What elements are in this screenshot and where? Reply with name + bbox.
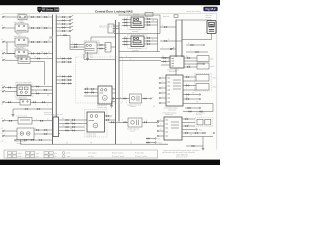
wire ignition load sw left	[5, 53, 16, 55]
wire M3 in 1	[70, 44, 84, 46]
wire M1 in 1	[84, 88, 96, 90]
svg-text:GB: GB	[188, 65, 190, 67]
series badge	[42, 7, 59, 11]
connector pair U4 out 3	[185, 125, 186, 126]
wire bottom feed left	[21, 143, 53, 145]
connector pair U4 out 5	[185, 132, 186, 133]
svg-text:GB: GB	[153, 106, 155, 108]
svg-text:N: N	[41, 15, 42, 17]
svg-text:a12: a12	[1, 85, 4, 87]
door switch S2	[20, 100, 31, 106]
connector pair passenger door actuator group in 3	[124, 44, 125, 45]
wire M3 out 1	[97, 44, 105, 46]
connector pair X1 b 4	[72, 130, 73, 131]
motor box B5	[196, 84, 209, 91]
connector pair driver door actuator group in 2	[124, 22, 125, 23]
svg-text:B: B	[160, 124, 161, 126]
wire M3 in 2	[70, 46, 84, 48]
wire top rail	[119, 14, 160, 16]
connector pair X1 a 2	[65, 123, 66, 124]
connector pair a interior lamp feed	[31, 16, 32, 17]
connector pair y111 a	[188, 111, 189, 112]
legend box	[4, 150, 158, 158]
wire A5 right 2	[34, 133, 53, 135]
connector pair sill a 3	[62, 83, 63, 84]
actuator motor driver door actuator group	[131, 17, 144, 28]
svg-text:GB: GB	[124, 37, 126, 39]
svg-text:U: U	[121, 26, 122, 28]
connector block C300	[105, 43, 111, 53]
wire sub row y52	[186, 51, 208, 53]
connector pair M1 in 1b	[91, 88, 92, 89]
svg-text:a12: a12	[1, 141, 4, 143]
wire U4 out 6	[182, 136, 213, 138]
terminal ignition load sw	[2, 53, 3, 54]
svg-text:B: B	[29, 26, 30, 28]
wire S3 left	[5, 120, 19, 122]
switch contact pillar 5	[69, 30, 71, 32]
terminal U3 in 1	[159, 77, 160, 78]
connector pair A5 r2	[44, 133, 45, 134]
svg-text:lamp: lamp	[67, 153, 71, 155]
connector pair sill a 2	[62, 79, 63, 80]
svg-text:central door locking: central door locking	[186, 10, 201, 13]
connector pair A5 r3c	[39, 139, 40, 140]
connector pair U3 out 5	[186, 94, 187, 95]
svg-text:P: P	[47, 57, 48, 59]
junction key 2	[56, 62, 57, 63]
terminal S2	[2, 102, 3, 103]
top black bar	[0, 0, 220, 5]
wire U3 out 1	[183, 76, 196, 78]
svg-text:link: link	[54, 156, 57, 158]
connector pair feed mid	[63, 35, 64, 36]
connector pair U4 out 1	[185, 118, 186, 119]
wire above M3	[90, 37, 92, 41]
connector pair U3 out 3	[186, 85, 187, 86]
junction pillar 3	[56, 24, 57, 25]
connector pair S2 a	[33, 102, 34, 103]
connector pair y122.3 b	[123, 122, 124, 123]
wire driver door actuator group in 3	[122, 25, 131, 27]
actuator motor M3 front left door	[85, 42, 97, 53]
wire lock relay left	[5, 27, 16, 29]
actuator M1 front door	[98, 86, 112, 104]
wire row y122.3 right	[109, 121, 129, 123]
switch contact pillar 3	[69, 23, 71, 25]
wire right row y49	[160, 48, 176, 50]
terminal U3 out 5	[199, 94, 200, 95]
wire right row y41	[160, 40, 182, 42]
wire G2 stub	[111, 102, 113, 104]
svg-text:N: N	[35, 105, 36, 107]
connector pair M3 out 2	[99, 48, 100, 49]
svg-text:see key: see key	[196, 114, 202, 116]
svg-text:G: G	[146, 42, 147, 44]
wire courtesy right 1	[30, 58, 53, 60]
connector pair K2 r2	[44, 89, 45, 90]
switch box SW2	[205, 119, 211, 125]
wire U2 feed left b	[119, 60, 161, 62]
wire M2 out 1	[105, 115, 113, 117]
svg-text:RR Series 1995: RR Series 1995	[42, 9, 60, 12]
wire pillar switch row 2	[56, 20, 69, 22]
svg-text:Y: Y	[47, 86, 48, 88]
junction U2 feed	[119, 57, 120, 58]
connector pair K2 r1	[36, 86, 37, 87]
wire CB1 out 3	[114, 30, 116, 32]
connector pair sub y45	[190, 44, 191, 45]
actuator M2 rear door	[87, 112, 105, 132]
wire bottom drop	[20, 140, 22, 144]
connector pair K2 r3	[36, 93, 37, 94]
connector pair pillar 2	[62, 20, 63, 21]
terminal U3 in 6	[159, 102, 160, 103]
svg-text:conn: conn	[36, 153, 39, 155]
wire right row y27	[160, 26, 176, 28]
svg-text:B: B	[146, 120, 147, 122]
svg-text:N: N	[162, 81, 163, 83]
svg-text:a12: a12	[1, 39, 4, 41]
svg-text:G: G	[122, 120, 123, 122]
assembly boundary rear door	[85, 110, 108, 138]
wire A5 left 1	[5, 130, 18, 132]
connector pair c ignition load sw	[44, 53, 45, 54]
svg-text:GB: GB	[34, 57, 36, 59]
wire U4 out 4	[182, 129, 195, 131]
wire key switch row 1	[56, 58, 72, 60]
svg-text:Central Door Locking NAS: Central Door Locking NAS	[95, 10, 133, 14]
svg-text:a12: a12	[1, 90, 4, 92]
wire key switch row 2	[56, 61, 72, 63]
svg-text:Y: Y	[124, 21, 125, 23]
wire lock top	[176, 19, 212, 21]
svg-text:NB: NB	[98, 43, 100, 45]
svg-text:splice: splice	[18, 153, 22, 155]
small box top center	[145, 13, 153, 17]
wire X1 out 1	[60, 119, 87, 121]
connector pair X1 a 1	[65, 119, 66, 120]
component courtesy switch box	[18, 57, 30, 64]
connector pair passenger door actuator group in 2	[124, 41, 125, 42]
svg-text:lock: lock	[158, 138, 161, 140]
svg-text:a12: a12	[1, 57, 4, 59]
svg-text:U: U	[162, 47, 163, 49]
switch contact pillar 4	[69, 27, 71, 29]
wire A5 right 3	[16, 139, 53, 141]
connector pair A5 r1	[36, 129, 37, 130]
svg-text:fuse: fuse	[54, 153, 57, 155]
connector pair b lock relay	[37, 27, 38, 28]
terminal U4 in 2	[157, 125, 158, 126]
svg-text:Y: Y	[35, 136, 36, 138]
wire left of U4 bottom	[160, 143, 168, 145]
wire unlock relay left	[5, 41, 16, 43]
wire driver door actuator group out 3	[144, 24, 158, 26]
wire pillar switch row 5	[56, 30, 69, 32]
terminal U3 in 5	[159, 97, 160, 98]
wire U3 out 5	[183, 94, 199, 96]
connector pair U2 in 2	[163, 61, 164, 62]
svg-text:fuel filler flap lock: fuel filler flap lock	[127, 129, 139, 131]
connector pair y109	[25, 108, 26, 109]
connector pair b interior lamp feed	[37, 16, 38, 17]
svg-text:GP: GP	[48, 40, 50, 42]
bottom black bar	[0, 160, 220, 165]
terminal courtesy	[2, 60, 3, 61]
svg-text:R: R	[124, 18, 125, 20]
svg-text:NB: NB	[186, 97, 188, 99]
connector pair U2 in 1	[163, 57, 164, 58]
ECU U3 central door locking unit	[166, 75, 183, 106]
connector pair pillar 4	[62, 27, 63, 28]
component box lock relay	[15, 24, 28, 32]
connector pair key b 2	[68, 61, 69, 62]
junction pillar 2	[56, 20, 57, 21]
wire U2 feed left a	[119, 57, 170, 59]
svg-text:a12: a12	[1, 128, 4, 130]
terminal K2 left 2	[2, 91, 3, 92]
svg-text:GP: GP	[190, 135, 192, 137]
svg-text:GB: GB	[48, 52, 50, 54]
svg-text:R: R	[29, 40, 30, 42]
junction pillar 1	[56, 17, 57, 18]
terminal S3	[2, 120, 3, 121]
connector pair U2 out 1	[187, 57, 188, 58]
switch contact pillar 2	[69, 20, 71, 22]
assembly boundary front left door	[84, 41, 99, 55]
terminal U2 out 3	[203, 63, 204, 64]
svg-text:M: M	[104, 98, 106, 100]
svg-text:plug: plug	[36, 156, 39, 158]
wire pillar switch row 4	[56, 27, 69, 29]
svg-text:Fig 15.2: Fig 15.2	[205, 7, 216, 11]
svg-text:see key: see key	[88, 156, 94, 158]
svg-text:N: N	[152, 39, 153, 41]
component box interior lamp feed	[18, 15, 27, 20]
terminal U3 in 2	[159, 82, 160, 83]
wire passenger door actuator group out 1	[144, 37, 158, 39]
wire U3 drop right	[212, 104, 214, 112]
svg-text:P: P	[146, 36, 147, 38]
svg-text:N brown P purple: N brown P purple	[112, 156, 124, 158]
svg-text:relay: relay	[17, 34, 21, 36]
lock cylinder LC1	[207, 21, 216, 34]
svg-text:B: B	[36, 119, 37, 121]
wire feed mid	[56, 34, 70, 36]
connector pair M3 out 1	[99, 44, 100, 45]
wire ignition load sw right	[28, 53, 53, 55]
connector pair X1 b 3	[72, 126, 73, 127]
connector pair A5 r3a	[24, 139, 25, 140]
svg-text:wire colours: wire colours	[88, 153, 97, 155]
svg-text:G: G	[160, 119, 161, 121]
connector pair U3 out 6	[186, 98, 187, 99]
svg-text:R: R	[35, 86, 36, 88]
connector pair a lock relay	[31, 27, 32, 28]
wire passenger door actuator group out 2	[144, 40, 158, 42]
wire M3 out 2	[97, 48, 105, 50]
connector pair S3 left	[9, 120, 10, 121]
terminal U4 in 4	[157, 135, 158, 136]
wire K2 right 2	[31, 89, 53, 91]
svg-text:G: G	[66, 60, 67, 62]
terminal U4 in 1	[157, 120, 158, 121]
svg-text:P: P	[162, 76, 163, 78]
terminal A5 r3	[14, 140, 15, 141]
svg-text:GB: GB	[91, 91, 93, 93]
connector pair passenger door actuator group out 1	[147, 37, 148, 38]
wire lock relay right	[28, 27, 53, 29]
junction y122.3	[119, 122, 120, 123]
svg-text:door lock relay: door lock relay	[14, 22, 25, 24]
wire lock bottom	[182, 39, 212, 41]
connector pair b ignition load sw	[37, 53, 38, 54]
svg-text:N: N	[67, 19, 68, 21]
connector pair M3 in 2	[74, 46, 75, 47]
bus center vertical 2	[118, 22, 120, 122]
wire driver door actuator group out 2	[144, 21, 158, 23]
wire U3 in 1	[161, 77, 167, 79]
legend symbol splice	[8, 152, 12, 155]
bus vertical second	[55, 15, 57, 118]
wire U4 out 3	[182, 125, 195, 127]
svg-text:door lock relay module: door lock relay module	[16, 82, 32, 84]
connector pair X1 b 2	[72, 123, 73, 124]
svg-text:lamps feed: lamps feed	[17, 13, 25, 15]
wire X1 out 4	[60, 130, 85, 132]
wire driver door actuator group out 1	[144, 18, 158, 20]
wire U4 drop	[202, 137, 204, 147]
terminal U4 in 3	[157, 130, 158, 131]
svg-text:R: R	[188, 125, 189, 127]
svg-text:a12: a12	[1, 133, 4, 135]
connector pair y108	[187, 107, 188, 108]
wire S2 right	[31, 101, 53, 103]
connector pair S2 b	[42, 102, 43, 103]
connector pair key a 1	[62, 58, 63, 59]
terminal U3 out 6	[199, 98, 200, 99]
svg-text:door unlock relay: door unlock relay	[14, 36, 26, 38]
wire U2 in 2	[161, 61, 170, 63]
wire row y108 right	[185, 107, 199, 109]
svg-text:P: P	[29, 15, 30, 17]
connector pair driver door actuator group out 1	[147, 18, 148, 19]
bus center vertical 1	[115, 20, 117, 144]
wire K2 left 2	[5, 91, 18, 93]
wire M1 out right 2	[112, 92, 116, 94]
wire sill button row 2	[56, 79, 72, 81]
svg-text:N: N	[60, 57, 61, 59]
wire U3 out 3	[183, 85, 196, 87]
svg-text:P: P	[120, 98, 121, 100]
svg-text:GB: GB	[70, 129, 72, 131]
svg-text:a12: a12	[1, 14, 4, 16]
connector pair B6 right	[143, 98, 144, 99]
svg-text:NB: NB	[70, 122, 72, 124]
terminal lock relay	[2, 27, 3, 28]
svg-text:Y: Y	[79, 45, 80, 47]
door boundary dashed	[76, 57, 123, 103]
terminal sub y45	[203, 44, 204, 45]
wire X1 out 3	[60, 126, 85, 128]
wire U2 in 3	[161, 64, 170, 66]
svg-text:B: B	[60, 75, 61, 77]
connector pair U4 bottom	[191, 145, 192, 146]
svg-text:P: P	[106, 114, 107, 116]
wire K2 right 1	[31, 86, 53, 88]
lamp box L1	[197, 56, 209, 62]
connector pair right y41	[164, 40, 165, 41]
terminal A5 1	[2, 130, 3, 131]
svg-text:B: B	[67, 26, 68, 28]
svg-text:P: P	[110, 56, 111, 58]
svg-text:N: N	[126, 56, 127, 58]
wire passenger door actuator group in 1	[122, 38, 131, 40]
svg-text:GP: GP	[35, 91, 37, 93]
connector pair A5 r3b	[31, 139, 32, 140]
wire relay drop left	[6, 42, 8, 54]
connector pair U3 out 1	[186, 76, 187, 77]
wire sub row y45	[186, 44, 203, 46]
connector pair A5 r1b	[44, 129, 45, 130]
wire U2 out 2	[184, 60, 197, 62]
svg-text:GP: GP	[62, 118, 64, 120]
connector pair passenger door actuator group out 2	[147, 40, 148, 41]
wire U4 in 1	[159, 120, 165, 122]
M1 pin tick 3	[96, 95, 98, 97]
terminal U3 in 3	[159, 87, 160, 88]
svg-text:G: G	[130, 59, 131, 61]
assembly boundary K2	[15, 84, 33, 97]
switch contact pillar 1	[69, 16, 71, 18]
wire M2 out 2	[105, 119, 116, 121]
wire between groups	[114, 33, 160, 35]
wire M1 in 3	[84, 95, 96, 97]
wire row y111	[183, 111, 213, 113]
svg-text:P: P	[59, 15, 60, 17]
svg-text:B: B	[162, 91, 163, 93]
wire X1 out 2	[60, 123, 87, 125]
connector pair U4 out row5b	[202, 132, 203, 133]
svg-text:U: U	[60, 34, 61, 36]
wire driver door actuator group in 1	[122, 19, 131, 21]
wire B7 right	[142, 121, 157, 123]
connector pair B7 right	[144, 122, 145, 123]
wire B6 left	[113, 98, 130, 100]
wire pillar switch row 3	[56, 23, 69, 25]
connector pair y111 b	[199, 111, 200, 112]
connector pair X1 a 4	[65, 130, 66, 131]
svg-text:N: N	[109, 118, 110, 120]
connector pair X1 b 1	[72, 119, 73, 120]
svg-text:NAS/01.15-2: NAS/01.15-2	[99, 26, 113, 29]
component box unlock relay	[15, 38, 28, 46]
junction pillar 5	[56, 31, 57, 32]
svg-text:G: G	[47, 105, 48, 107]
svg-text:R: R	[188, 43, 189, 45]
terminal interior lamp feed	[2, 16, 3, 17]
svg-text:Y: Y	[186, 131, 187, 133]
right link vertical	[157, 19, 159, 52]
svg-text:Y: Y	[41, 40, 42, 42]
wire M1 in 2	[84, 92, 96, 94]
wire corner below M3	[84, 59, 116, 61]
wire M1 out right	[112, 88, 116, 90]
wire long bottom run	[53, 143, 169, 145]
connector pair sill b 3	[68, 83, 69, 84]
wire passenger door actuator group in 2	[122, 41, 131, 43]
